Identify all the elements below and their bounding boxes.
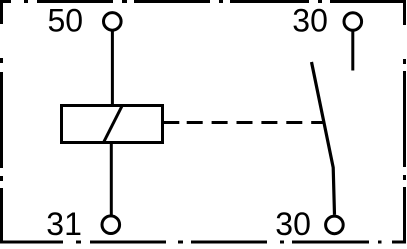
svg-text:31: 31	[46, 206, 82, 242]
fixed contact stub	[351, 30, 354, 70]
switch blade	[312, 62, 335, 215]
wire coil to 31	[110, 143, 113, 216]
wire 50 to coil	[111, 30, 114, 105]
terminal circle 50	[104, 13, 122, 31]
coil diagonal stroke	[104, 106, 123, 143]
relay coil	[62, 106, 163, 143]
terminal circle 30 top	[344, 13, 362, 31]
terminal circle 31	[102, 216, 120, 234]
svg-text:50: 50	[48, 3, 84, 39]
actuating dashed link	[164, 121, 179, 124]
svg-text:30: 30	[275, 206, 311, 242]
terminal circle 30 bottom	[326, 216, 344, 234]
svg-text:30: 30	[292, 3, 328, 39]
